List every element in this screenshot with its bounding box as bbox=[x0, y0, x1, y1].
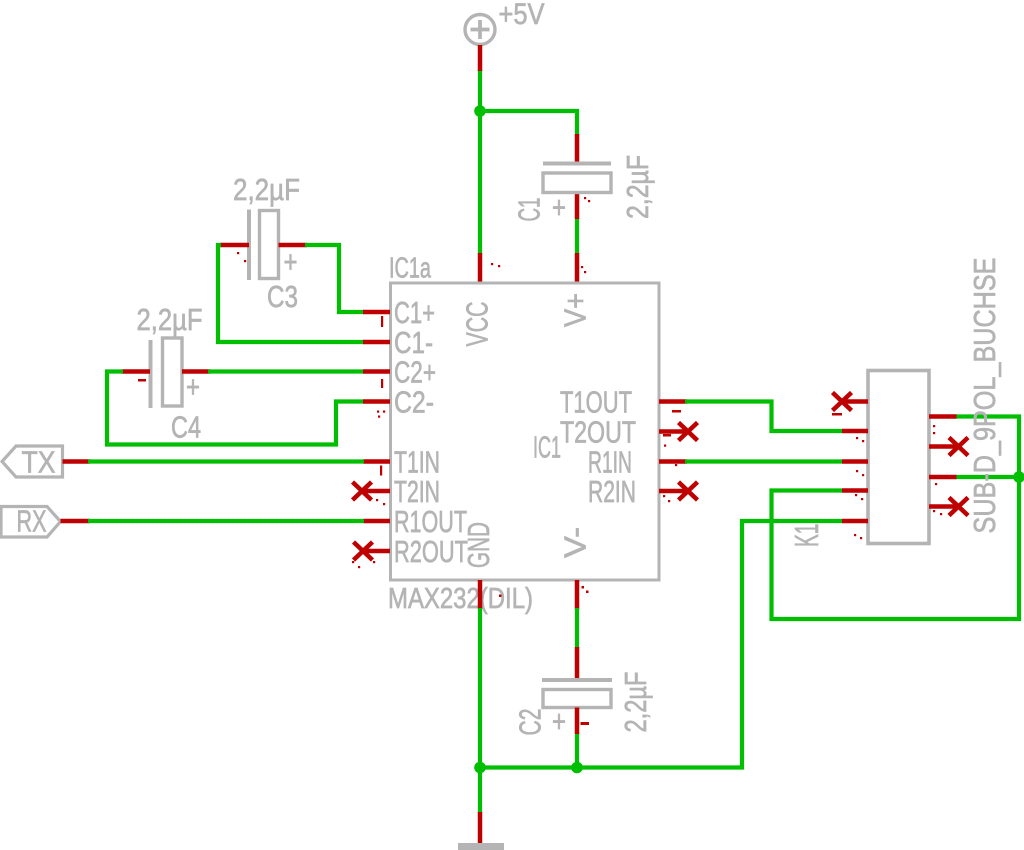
svg-text:VCC: VCC bbox=[460, 302, 495, 347]
no-connect cross R2OUT bbox=[354, 542, 373, 560]
pin K1 p5 bbox=[842, 519, 868, 524]
svg-text:V-: V- bbox=[558, 527, 593, 558]
svg-text:R2IN: R2IN bbox=[588, 474, 636, 509]
supply symbol +5V bbox=[465, 15, 495, 45]
wire net V- to C2 bbox=[575, 608, 579, 649]
svg-text:RX: RX bbox=[17, 504, 47, 539]
svg-text:+: + bbox=[552, 704, 566, 739]
pin IC1 R1OUT bbox=[363, 519, 390, 524]
wire net GND vertical bbox=[478, 608, 482, 812]
junction K1 loop node bbox=[1013, 471, 1024, 483]
pin number marks (tiny red) bbox=[138, 197, 942, 725]
capacitor C1 plates bbox=[543, 164, 611, 193]
wire net R1IN to K1 pin3 bbox=[685, 459, 842, 463]
pin K1 p8 bbox=[929, 475, 957, 480]
pin IC1 C1- bbox=[363, 340, 390, 345]
svg-text:2,2µF: 2,2µF bbox=[618, 672, 653, 733]
svg-text:2,2µF: 2,2µF bbox=[137, 302, 203, 337]
pin IC1 V+ bbox=[575, 253, 580, 284]
pin IC1 T2OUT bbox=[659, 429, 687, 434]
pin C2 bottom bbox=[575, 708, 580, 735]
wire net T1OUT to K1 pin2 bbox=[685, 402, 842, 432]
pin IC1 VCC bbox=[478, 253, 483, 284]
connector K1 box bbox=[868, 371, 929, 544]
wire net C2 to ground rail bbox=[575, 732, 579, 768]
svg-text:IC1: IC1 bbox=[533, 430, 561, 465]
svg-text:2,2µF: 2,2µF bbox=[620, 155, 655, 219]
pin +5V supply bbox=[478, 45, 483, 71]
pin K1 p2 bbox=[842, 429, 868, 434]
wire net TX to T1IN bbox=[88, 459, 364, 463]
pin C2 top bbox=[575, 647, 580, 678]
pin K1 p9 bbox=[929, 504, 957, 509]
pin RX bbox=[61, 519, 91, 524]
no-connect cross K1 p9 bbox=[949, 498, 968, 516]
IC1 box MAX232 bbox=[391, 283, 660, 580]
pin IC1 R2OUT bbox=[363, 549, 390, 554]
pin C1 bottom bbox=[575, 193, 580, 220]
svg-text:C2: C2 bbox=[513, 709, 548, 736]
pin C1 top bbox=[575, 134, 580, 162]
junction ground rail at GND bbox=[474, 762, 486, 774]
pin IC1 GND bbox=[478, 580, 483, 609]
capacitor C4 plates bbox=[151, 338, 183, 408]
wire net VCC vertical bbox=[478, 69, 482, 255]
svg-text:SUB-D_9POL_BUCHSE: SUB-D_9POL_BUCHSE bbox=[968, 258, 1002, 534]
pin K1 p7 bbox=[929, 444, 957, 449]
capacitor C2 plates bbox=[542, 680, 612, 708]
wire net K1 pin8 stub to loop bbox=[955, 475, 1019, 479]
pin IC1 T2IN bbox=[363, 489, 390, 494]
pin IC1 C2+ bbox=[363, 369, 390, 374]
pin IC1 V- bbox=[575, 580, 580, 610]
svg-text:MAX232(DIL): MAX232(DIL) bbox=[388, 583, 533, 615]
flag TX bbox=[2, 446, 63, 477]
svg-text:R2OUT: R2OUT bbox=[394, 534, 468, 569]
svg-text:+: + bbox=[186, 369, 200, 404]
capacitor C3 plates bbox=[249, 210, 279, 281]
svg-text:IC1a: IC1a bbox=[389, 253, 432, 285]
svg-text:+5V: +5V bbox=[499, 0, 545, 31]
svg-text:V+: V+ bbox=[558, 293, 593, 327]
svg-text:+: + bbox=[552, 190, 566, 225]
pin C3 right bbox=[279, 243, 308, 248]
pin IC1 R2IN bbox=[659, 489, 687, 494]
svg-text:2,2µF: 2,2µF bbox=[233, 172, 300, 207]
pin IC1 T1OUT bbox=[659, 399, 687, 404]
pin C4 right bbox=[182, 369, 210, 374]
ground symbol bbox=[458, 843, 504, 850]
flag RX bbox=[1, 507, 61, 538]
pin IC1 T1IN bbox=[363, 459, 390, 464]
no-connect cross T2IN bbox=[353, 482, 372, 500]
pin C3 left bbox=[220, 243, 249, 248]
junction VCC node bbox=[474, 105, 486, 117]
no-connect cross K1 p7 bbox=[949, 438, 968, 456]
pin C4 left bbox=[122, 369, 151, 374]
no-connect cross T2OUT bbox=[679, 423, 698, 441]
pin TX bbox=[63, 459, 91, 464]
pin IC1 R1IN bbox=[659, 459, 687, 464]
pin GND symbol bbox=[478, 812, 483, 843]
svg-text:C1: C1 bbox=[512, 198, 547, 222]
svg-text:C3: C3 bbox=[267, 279, 298, 314]
no-connect cross K1 p1 bbox=[833, 393, 852, 411]
svg-text:TX: TX bbox=[22, 445, 56, 480]
svg-text:+: + bbox=[284, 244, 298, 279]
pin IC1 C1+ bbox=[363, 310, 390, 315]
wire net VCC horizontal to C1 bbox=[480, 111, 577, 136]
wire net C3 left to C1- bbox=[218, 245, 364, 342]
wire net K1 pin4 loop to pin6 bbox=[772, 417, 1020, 620]
pin K1 p4 bbox=[842, 488, 868, 493]
pin K1 p6 bbox=[929, 414, 957, 419]
svg-text:C2-: C2- bbox=[394, 385, 434, 420]
no-connect cross R2IN bbox=[679, 482, 698, 500]
wire net C1 bottom to V+ bbox=[575, 217, 579, 255]
pin K1 p3 bbox=[842, 459, 868, 464]
wire net C4 right to C2+ bbox=[208, 369, 364, 373]
wire net C3 right to C1+ bbox=[305, 245, 364, 312]
pin IC1 C2- bbox=[363, 399, 390, 404]
pin K1 p1 bbox=[842, 399, 868, 404]
wire net K1 pin5 to ground rail bbox=[478, 521, 842, 768]
svg-text:K1: K1 bbox=[788, 524, 825, 548]
wire net RX to R1OUT bbox=[88, 519, 364, 523]
junction ground rail at C2 bbox=[571, 762, 583, 774]
svg-text:C4: C4 bbox=[171, 410, 201, 445]
wire net C4 left to C2- bbox=[107, 372, 364, 445]
